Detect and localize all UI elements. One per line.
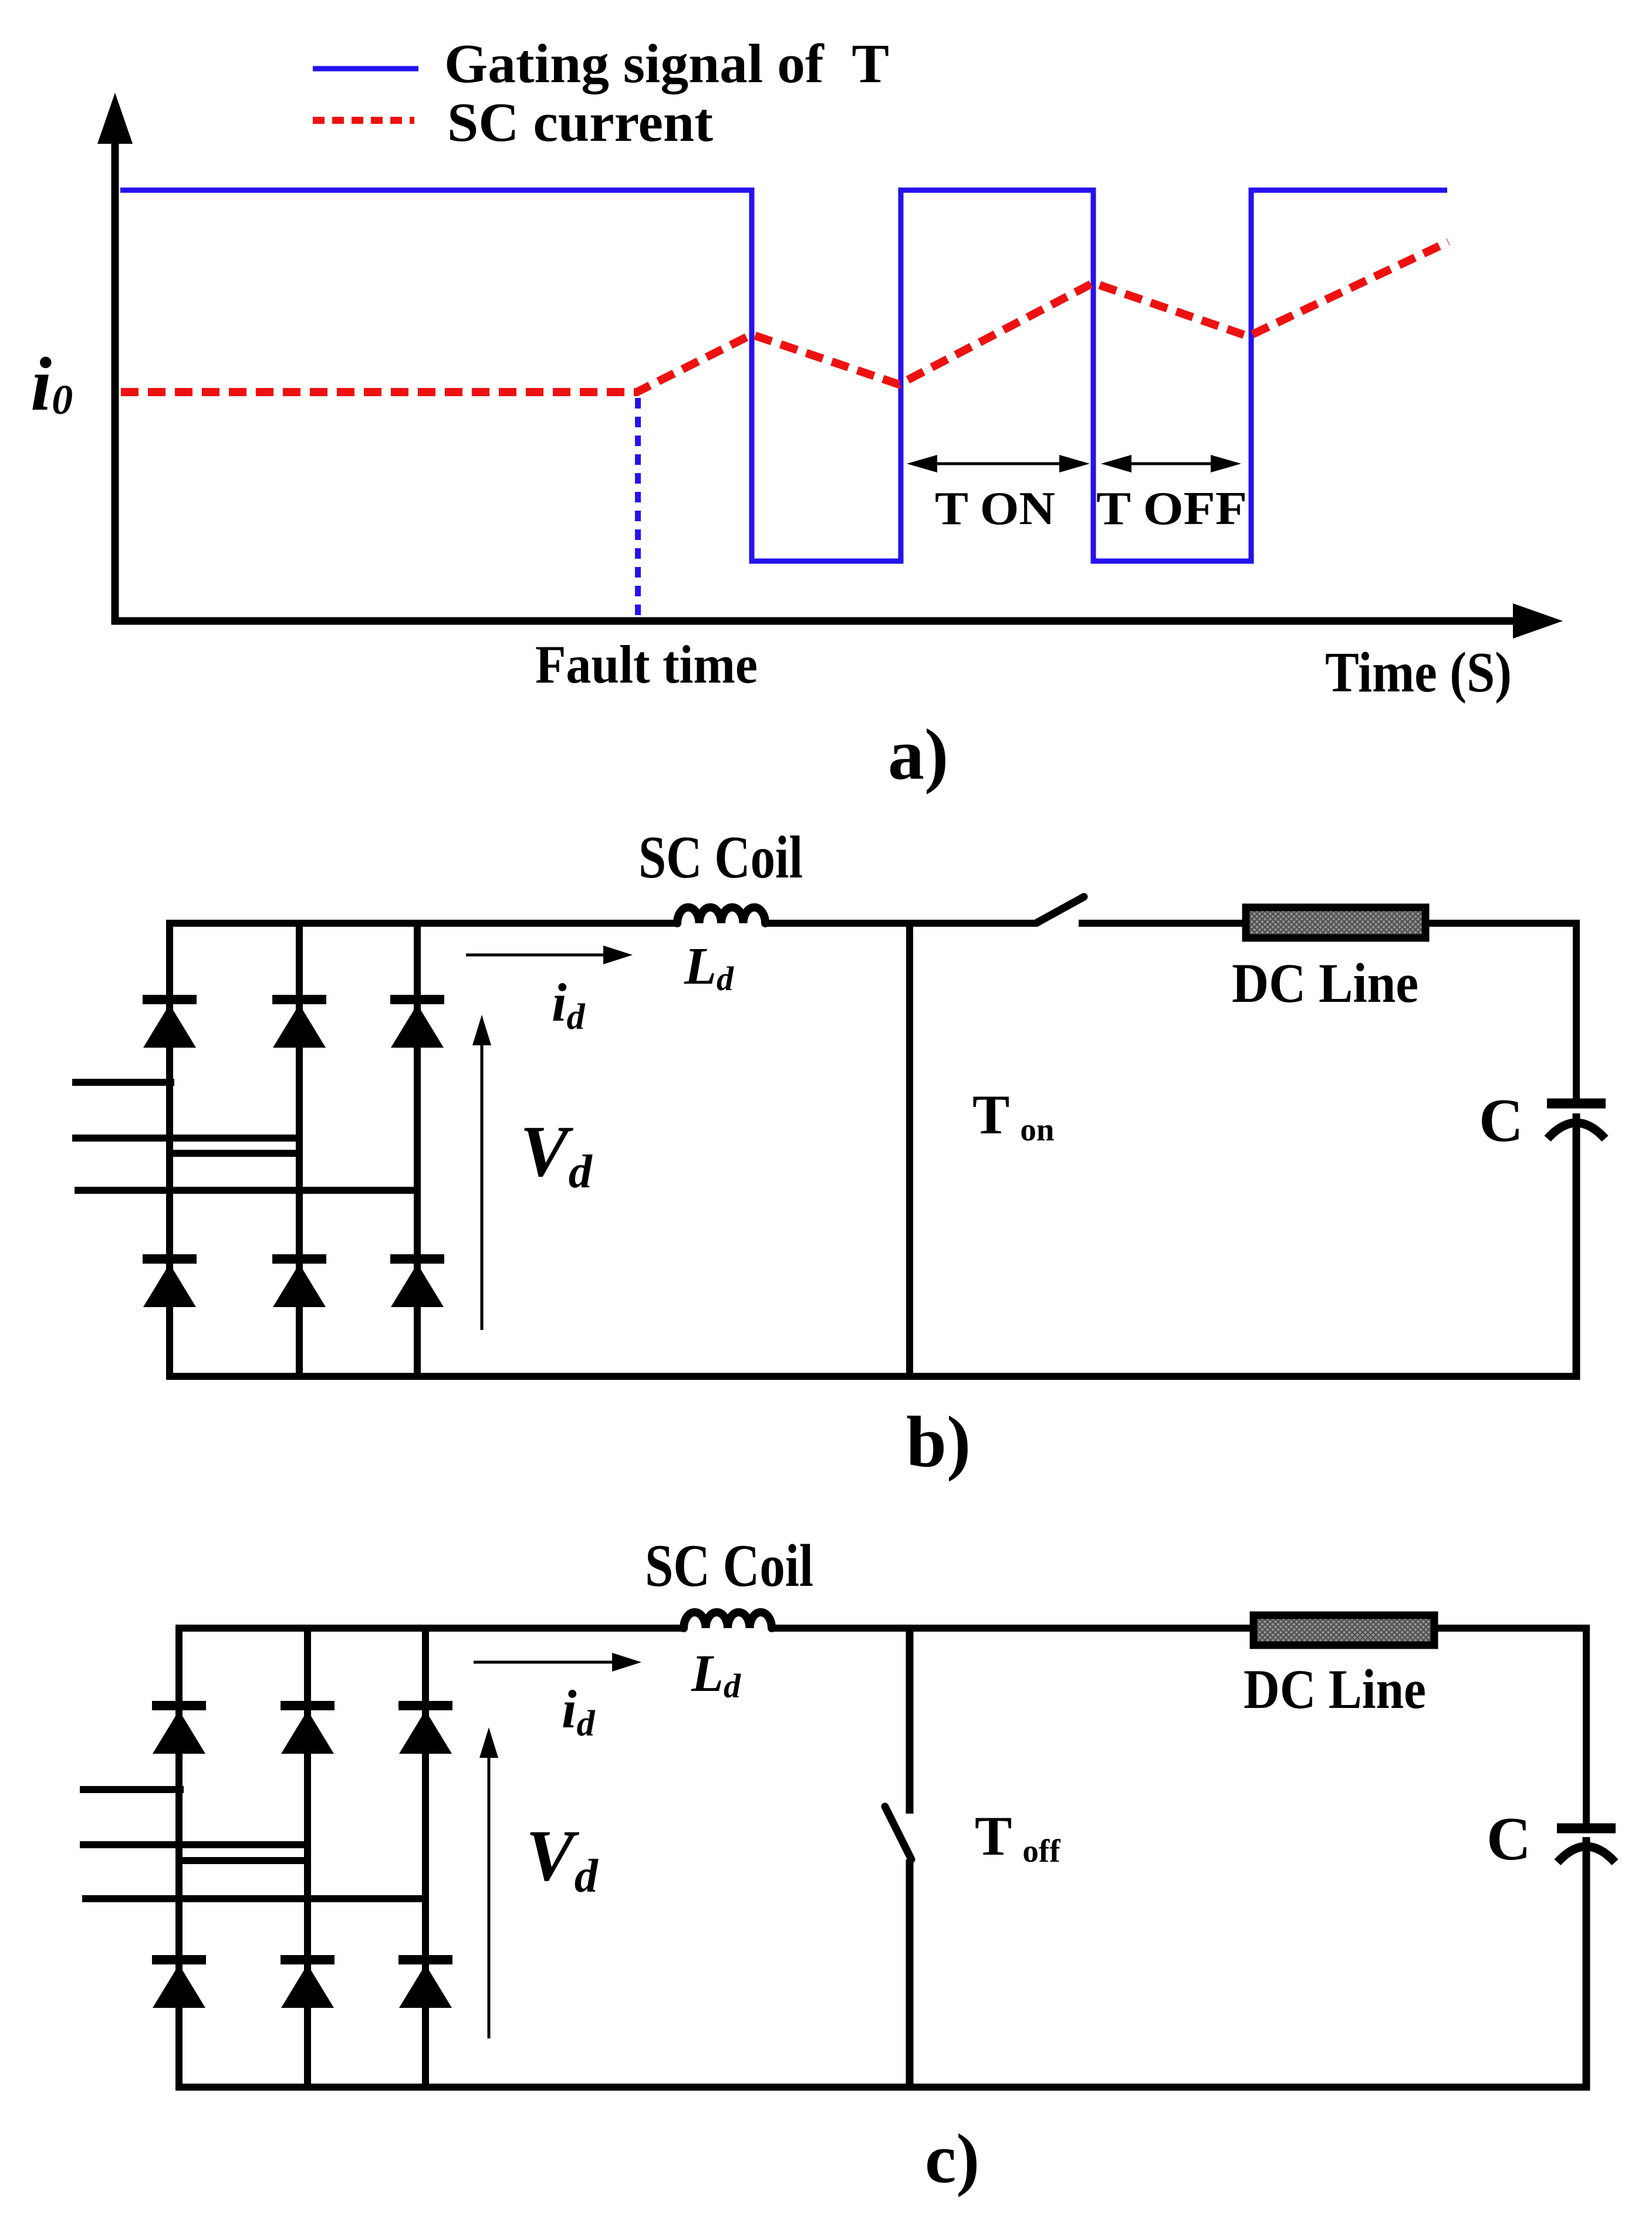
wire: right vertical upper (c) — [1583, 1625, 1590, 1825]
wire: top bus DC line to right corner (b) — [1425, 920, 1580, 927]
T OFF duration arrow — [1101, 455, 1241, 472]
wire: rectifier leg 2 (c) — [304, 1628, 311, 2087]
svg-text:DC Line: DC Line — [1244, 1658, 1426, 1720]
diode D2 lower leg3 (c) — [398, 1960, 452, 2008]
diode D3 upper leg2 (c) — [281, 1706, 335, 1754]
wire: rectifier leg 3 (b) — [414, 923, 421, 1376]
svg-text:T OFF: T OFF — [1096, 483, 1247, 535]
diode D4 lower leg1 (b) — [143, 1259, 197, 1307]
wire: top bus coil to switch (b) — [764, 920, 1038, 927]
wire: ac phase B lead (b) — [72, 1135, 299, 1142]
svg-text:SC Coil: SC Coil — [638, 824, 803, 891]
capacitor C (c) — [1557, 1828, 1616, 2091]
current arrow id (b) — [466, 946, 633, 964]
wire: middle vertical T branch (b) — [906, 923, 913, 1376]
wire: top bus left of coil (c) — [179, 1625, 685, 1632]
diode D1 upper leg1 (b) — [143, 1000, 197, 1048]
wire: middle vertical upper segment (c) — [906, 1628, 914, 1814]
diode D5 upper leg3 (b) — [390, 1000, 444, 1048]
svg-text:Fault time: Fault time — [535, 634, 758, 694]
diode D4 lower leg1 (c) — [152, 1960, 206, 2008]
wire: ac phase B stub (c) — [179, 1857, 308, 1864]
svg-text:Time (S): Time (S) — [1325, 641, 1512, 704]
wire: ac phase B lead (c) — [80, 1841, 308, 1848]
wire: right vertical upper (b) — [1573, 920, 1580, 1100]
diode D3 upper leg2 (b) — [272, 1000, 326, 1048]
SC current dashed curve — [121, 242, 1448, 392]
wire: middle vertical lower segment (c) — [906, 1859, 914, 2087]
diode D2 lower leg3 (b) — [390, 1259, 444, 1307]
svg-text:b): b) — [906, 1402, 971, 1482]
wire: ac phase A lead (c) — [80, 1786, 184, 1793]
svg-text:C: C — [1479, 1086, 1523, 1154]
wire: ac phase C lead (b) — [75, 1187, 417, 1194]
wire: ac phase B stub (b) — [170, 1150, 299, 1157]
wire: top bus coil to right corner (c) — [771, 1625, 1590, 1632]
svg-text:a): a) — [888, 714, 948, 795]
inductor Ld SC coil (c) — [684, 1612, 772, 1628]
switch T (closed position shown open-blade) (b) — [1037, 897, 1084, 923]
legend: gating signal sample line — [313, 66, 418, 72]
voltage arrow Vd (b) — [472, 1015, 491, 1330]
voltage arrow Vd (c) — [479, 1727, 498, 2038]
wire: ac phase C lead (c) — [82, 1895, 425, 1902]
wire: top bus left of coil (b) — [170, 920, 678, 927]
T ON duration arrow — [907, 455, 1090, 472]
svg-text:c): c) — [925, 2119, 979, 2197]
wire: rectifier leg 1 (c) — [175, 1625, 183, 2087]
fault time dashed marker line — [635, 398, 641, 616]
gating signal square wave — [120, 190, 1447, 561]
resistor DC Line (c) — [1254, 1615, 1434, 1645]
wire: top bus switch to DC line (b) — [1079, 920, 1246, 927]
wire: rectifier leg 3 (c) — [422, 1628, 429, 2087]
svg-text:Gating signal of T: Gating signal of T — [444, 33, 889, 94]
legend: SC current sample line — [313, 117, 414, 124]
svg-text:C: C — [1487, 1804, 1531, 1873]
svg-text:T ON: T ON — [935, 483, 1055, 535]
wire: rectifier leg 1 (b) — [166, 920, 173, 1376]
svg-text:DC Line: DC Line — [1232, 952, 1418, 1014]
diode D6 lower leg2 (c) — [281, 1960, 335, 2008]
diode D1 upper leg1 (c) — [152, 1706, 206, 1754]
diode D5 upper leg3 (c) — [398, 1706, 452, 1754]
inductor Ld SC coil (b) — [677, 907, 765, 923]
y axis — [97, 93, 133, 624]
current arrow id (c) — [474, 1653, 641, 1672]
wire: bottom bus (b) — [166, 1373, 1576, 1380]
resistor DC Line (b) — [1246, 907, 1425, 938]
x axis — [112, 603, 1563, 639]
wire: rectifier leg 2 (b) — [296, 923, 303, 1376]
switch T open blade (c) — [885, 1807, 911, 1859]
diode D6 lower leg2 (b) — [272, 1259, 326, 1307]
capacitor C (b) — [1547, 1103, 1606, 1380]
svg-text:SC current: SC current — [447, 92, 713, 153]
wire: bottom bus (c) — [175, 2084, 1586, 2091]
svg-text:SC Coil: SC Coil — [645, 1532, 813, 1599]
wire: ac phase A lead (b) — [72, 1079, 174, 1086]
